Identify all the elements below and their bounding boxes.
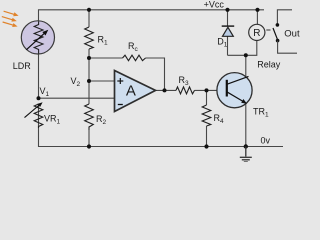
node emitter/ground on rail xyxy=(244,144,248,148)
wire output top terminal xyxy=(277,10,292,25)
ground xyxy=(240,147,252,163)
wire emitter down to rail xyxy=(245,103,247,147)
light arrow 3 xyxy=(3,22,18,27)
op-amp minus sign xyxy=(118,104,123,106)
node D1 top on rail xyxy=(225,8,229,12)
resistor R2 zigzag xyxy=(85,104,94,130)
relay coil R xyxy=(249,24,265,40)
node output/feedback junction xyxy=(163,88,167,92)
svg-text:Relay: Relay xyxy=(257,60,281,70)
svg-text:LDR: LDR xyxy=(13,61,32,71)
LDR arrow inside xyxy=(26,30,48,50)
wire LDR bottom to V1 node xyxy=(38,54,40,99)
wire R1 bottom to Rc tap to V2 node xyxy=(88,49,90,81)
wire D1 branch from rail xyxy=(227,10,229,26)
LDR circle xyxy=(21,21,54,54)
node collector junction xyxy=(244,53,248,57)
svg-text:Out: Out xyxy=(284,29,300,40)
op-amp A triangle xyxy=(115,71,156,112)
wire R3 to base node to transistor base xyxy=(195,89,227,91)
wire R1 branch from rail xyxy=(88,10,90,27)
svg-text:+Vcc: +Vcc xyxy=(204,0,225,9)
VR1 arrow xyxy=(25,102,43,117)
wire V2 node down to R2 xyxy=(88,81,90,104)
wire R4 bottom to rail xyxy=(206,126,208,147)
relay contact dashed link xyxy=(266,29,270,31)
wire Rc right segment down to output node xyxy=(146,58,165,90)
wire V2 node to op-amp non-inverting input xyxy=(89,80,115,82)
node relay top on rail xyxy=(255,8,259,12)
transistor collector stroke xyxy=(227,76,249,84)
diode D1 xyxy=(222,26,235,36)
node base/R4 junction xyxy=(205,88,209,92)
LDR resistor zigzag xyxy=(34,22,43,54)
node R4 bottom on rail xyxy=(204,144,208,148)
wire base node down to R4 xyxy=(206,90,208,105)
light arrow 1 xyxy=(4,11,19,16)
wire op-amp output to R3 xyxy=(156,89,177,91)
variable resistor VR1 zigzag xyxy=(34,104,43,128)
transistor TR1 body xyxy=(217,73,252,108)
switch blade xyxy=(273,28,278,40)
svg-text:0v: 0v xyxy=(261,136,271,146)
wire Rc feedback left segment xyxy=(89,57,123,59)
node V2 xyxy=(87,79,91,83)
op-amp plus sign xyxy=(117,78,123,84)
wire V1 node to op-amp inverting input xyxy=(39,97,115,99)
node R1 top on rail xyxy=(87,8,91,12)
wire collector node up to D1/relay net xyxy=(245,55,247,77)
wire R2 bottom to rail xyxy=(88,130,90,147)
node V1 xyxy=(37,96,41,100)
resistor R4 zigzag xyxy=(202,105,211,126)
wire output bottom terminal xyxy=(278,41,297,54)
light arrow 2 xyxy=(2,17,17,22)
resistor R3 zigzag xyxy=(176,87,195,94)
node R2 bottom on rail xyxy=(87,144,91,148)
transistor base bar xyxy=(226,80,228,97)
wire bottom 0v rail xyxy=(39,104,284,147)
svg-text:A: A xyxy=(126,82,136,99)
node Rc tap xyxy=(87,56,91,60)
resistor Rc zigzag xyxy=(123,55,146,61)
switch contact top terminal xyxy=(276,23,280,27)
svg-text:R: R xyxy=(253,28,260,39)
wire D1 to relay coil bottom horizontal xyxy=(228,40,257,55)
wire D1 anode down to collector net xyxy=(227,36,229,55)
resistor R1 zigzag xyxy=(85,27,94,49)
wire +Vcc top rail xyxy=(39,10,265,21)
wire relay coil top to rail xyxy=(256,10,258,25)
switch contact bottom terminal xyxy=(276,39,280,43)
transistor emitter stroke with arrow xyxy=(227,92,247,104)
